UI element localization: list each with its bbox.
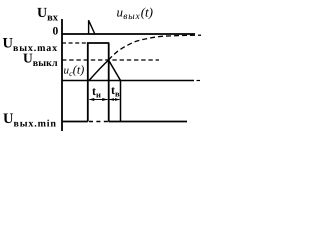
svg-text:tи: tи [92,84,101,100]
node zero-line (U=0, input trace) [62,33,195,35]
capacitor baseline u_C=const [62,80,194,82]
svg-text:uвых(t): uвых(t) [117,5,153,23]
svg-text:tв: tв [111,83,120,99]
U_vyh.min line right solid [109,121,188,123]
dimension arrow t_v [109,98,119,101]
baseline end dash [197,80,201,82]
output pulse right edge [108,43,110,122]
boundary line at end of recovery t_v [120,81,122,122]
axis U (vertical) [61,19,63,131]
dimension arrow t_i [89,98,108,101]
dashed level U_vyh.max [62,42,87,44]
dashed level U_vykl [62,59,159,61]
U_vyh.min line left solid [62,121,88,123]
svg-text:0: 0 [53,26,59,38]
input trigger spike u_vx [89,20,95,33]
output pulse top edge [87,42,109,44]
dashed exponential recovery curve [109,35,201,60]
capacitor charge ramp u_C(t) [89,60,109,81]
U_vyh.min dashed under pulse [89,121,108,123]
svg-text:uc(t): uc(t) [64,62,85,78]
svg-text:Uвх: Uвх [37,6,59,24]
output pulse left edge [87,43,89,122]
capacitor discharge line after pulse [109,60,121,81]
svg-text:Uвых.min: Uвых.min [3,111,57,130]
